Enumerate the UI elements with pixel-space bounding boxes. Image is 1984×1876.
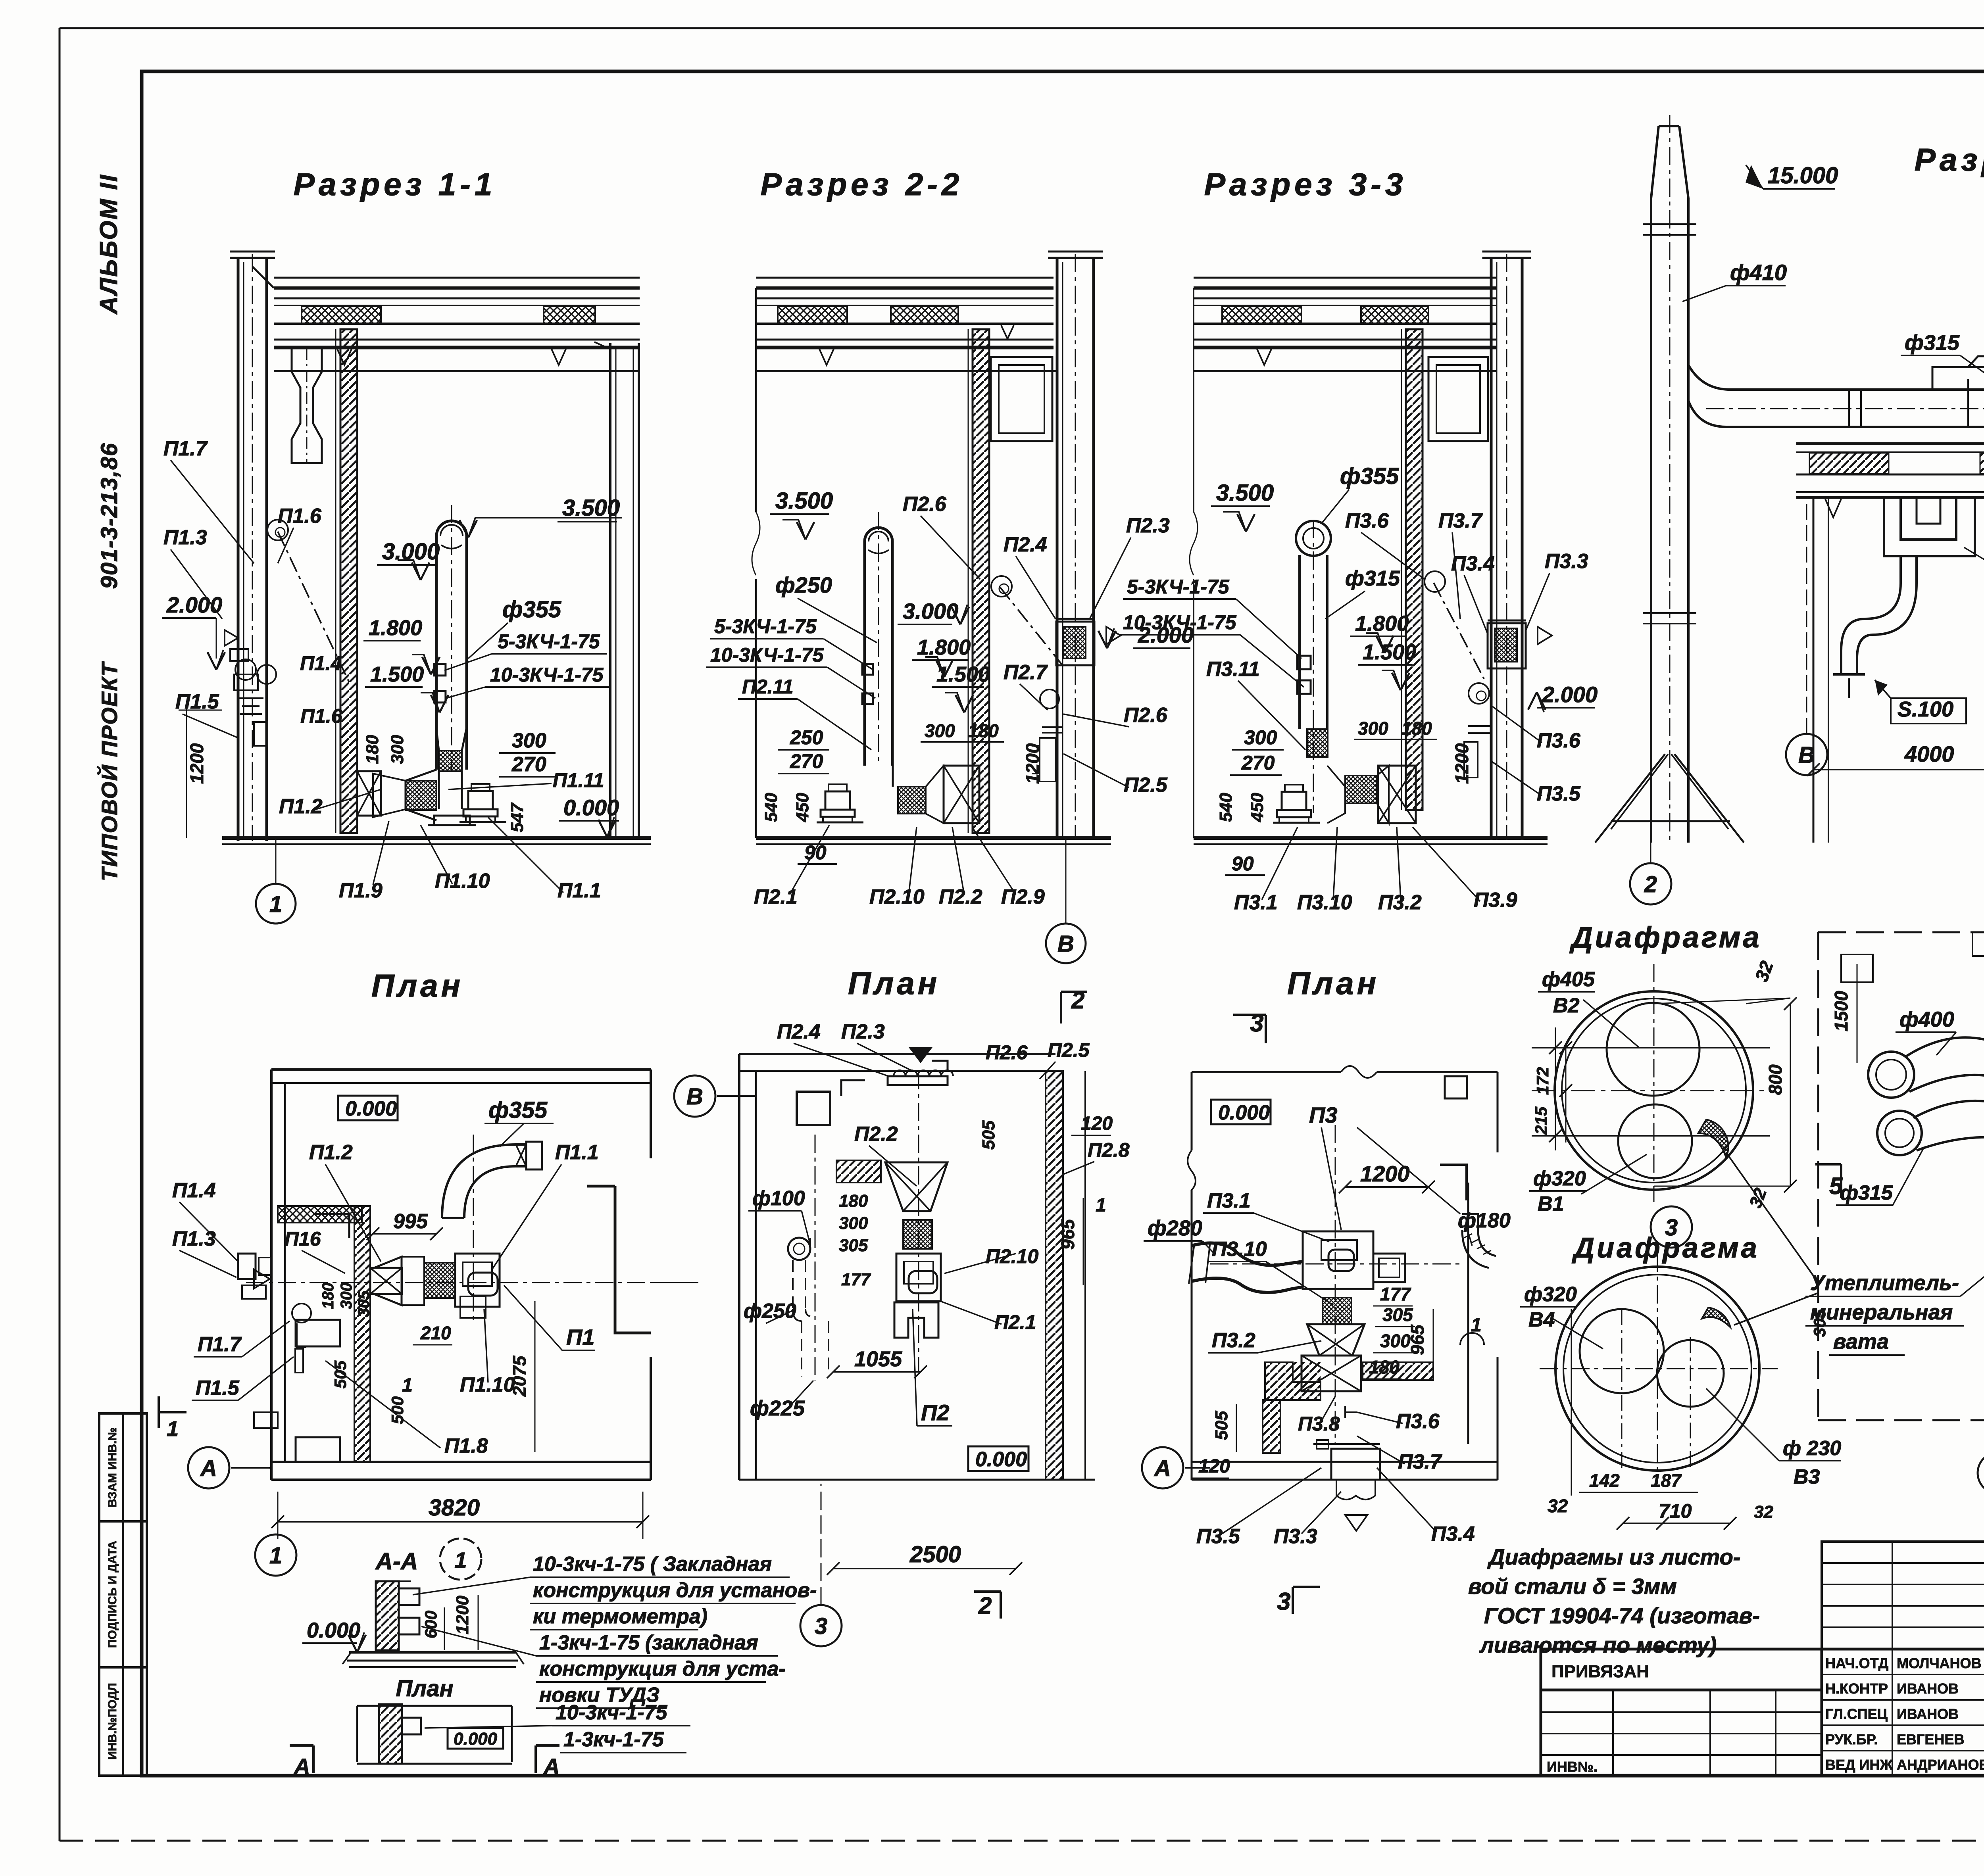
svg-text:П2.4: П2.4 xyxy=(777,1020,821,1043)
svg-text:Н.КОНТР: Н.КОНТР xyxy=(1825,1680,1888,1697)
svg-text:90: 90 xyxy=(1232,853,1254,875)
plan1 unit xyxy=(370,1257,402,1305)
svg-text:П3.5: П3.5 xyxy=(1196,1525,1240,1548)
svg-text:План: План xyxy=(371,968,463,1003)
svg-text:П2.6: П2.6 xyxy=(903,493,947,516)
misc dimension lines plans xyxy=(651,1282,698,1283)
svg-text:ИВАНОВ: ИВАНОВ xyxy=(1897,1680,1959,1697)
plan boundary xyxy=(1818,931,1984,933)
svg-text:П2.2: П2.2 xyxy=(939,885,982,908)
svg-text:ПОДПИСЬ И ДАТА: ПОДПИСЬ И ДАТА xyxy=(106,1541,119,1648)
svg-text:ИНВ.№ПОДЛ: ИНВ.№ПОДЛ xyxy=(106,1683,119,1760)
svg-text:180: 180 xyxy=(839,1191,868,1211)
svg-text:305: 305 xyxy=(355,1290,373,1317)
svg-text:П2.7: П2.7 xyxy=(1004,661,1048,684)
svg-text:П3.7: П3.7 xyxy=(1398,1450,1442,1473)
svg-text:П1.2: П1.2 xyxy=(309,1141,353,1164)
middle stack xyxy=(1048,257,1103,259)
svg-text:180: 180 xyxy=(1401,718,1432,739)
svg-text:П1.1: П1.1 xyxy=(555,1141,599,1164)
svg-text:АНДРИАНОВА: АНДРИАНОВА xyxy=(1897,1757,1984,1773)
svg-text:П3.10: П3.10 xyxy=(1212,1238,1267,1261)
svg-text:540: 540 xyxy=(1216,793,1236,822)
svg-text:РУК.БР.: РУК.БР. xyxy=(1825,1731,1878,1747)
svg-text:П1.4: П1.4 xyxy=(300,652,342,674)
svg-text:S.100: S.100 xyxy=(1897,697,1953,721)
svg-text:П1.11: П1.11 xyxy=(553,769,604,791)
svg-text:210: 210 xyxy=(420,1323,451,1343)
vent pipe F355 xyxy=(436,521,467,770)
svg-text:Утеплитель-: Утеплитель- xyxy=(1810,1271,1959,1295)
svg-text:минеральная: минеральная xyxy=(1810,1300,1953,1324)
svg-text:А-А: А-А xyxy=(375,1548,418,1575)
svg-text:300: 300 xyxy=(1358,718,1388,739)
svg-text:П1.4: П1.4 xyxy=(172,1179,216,1202)
svg-text:П2.5: П2.5 xyxy=(1124,774,1168,797)
svg-text:800: 800 xyxy=(1765,1064,1786,1095)
svg-text:П2.6: П2.6 xyxy=(986,1041,1028,1064)
svg-text:В: В xyxy=(1798,742,1815,768)
svg-text:1.800: 1.800 xyxy=(369,616,422,640)
svg-text:10-3кч-1-75 ( Закладная: 10-3кч-1-75 ( Закладная xyxy=(533,1553,772,1576)
svg-text:2.000: 2.000 xyxy=(166,592,222,617)
svg-text:305: 305 xyxy=(1382,1304,1413,1325)
svg-text:ГОСТ 19904-74 (изготав-: ГОСТ 19904-74 (изготав- xyxy=(1484,1603,1760,1628)
svg-text:1200: 1200 xyxy=(1022,743,1043,784)
vent pipe F315 with flange xyxy=(1296,521,1331,556)
svg-text:540: 540 xyxy=(761,793,781,822)
svg-text:300: 300 xyxy=(338,1283,355,1309)
svg-text:П3.6: П3.6 xyxy=(1537,729,1581,752)
svg-text:ф315: ф315 xyxy=(1345,566,1400,590)
duct B1 xyxy=(1877,1111,1922,1155)
svg-text:180: 180 xyxy=(968,720,999,741)
svg-text:10-3кч-1-75: 10-3кч-1-75 xyxy=(556,1701,668,1724)
svg-text:ф355: ф355 xyxy=(1340,463,1399,489)
svg-text:П2.8: П2.8 xyxy=(1088,1139,1130,1161)
svg-text:П3.9: П3.9 xyxy=(1474,889,1517,912)
svg-text:П2.4: П2.4 xyxy=(1004,533,1047,556)
svg-text:270: 270 xyxy=(1241,752,1275,774)
svg-text:172: 172 xyxy=(1533,1067,1552,1095)
svg-text:1.800: 1.800 xyxy=(917,636,971,659)
svg-text:ф250: ф250 xyxy=(744,1300,796,1323)
svg-text:ф225: ф225 xyxy=(750,1396,805,1420)
svg-text:П2.2: П2.2 xyxy=(854,1123,898,1146)
svg-text:ф315: ф315 xyxy=(1905,331,1960,355)
svg-text:П3.1: П3.1 xyxy=(1234,891,1278,914)
svg-text:П1.9: П1.9 xyxy=(339,879,383,902)
svg-text:5-3КЧ-1-75: 5-3КЧ-1-75 xyxy=(498,630,600,653)
svg-text:ВЕД ИНЖ: ВЕД ИНЖ xyxy=(1825,1757,1893,1773)
svg-text:3820: 3820 xyxy=(429,1495,480,1521)
svg-text:А: А xyxy=(200,1455,217,1481)
svg-text:П3: П3 xyxy=(1309,1102,1337,1127)
svg-text:3: 3 xyxy=(815,1613,827,1639)
svg-text:Разрез 3-3: Разрез 3-3 xyxy=(1204,167,1407,202)
svg-text:П2.11: П2.11 xyxy=(742,676,794,698)
outer border xyxy=(60,27,1984,29)
svg-text:ф250: ф250 xyxy=(775,572,832,597)
svg-text:План: План xyxy=(848,966,940,1001)
svg-text:1500: 1500 xyxy=(1831,991,1851,1031)
svg-text:П3.6: П3.6 xyxy=(1345,509,1389,532)
svg-text:5-3КЧ-1-75: 5-3КЧ-1-75 xyxy=(714,615,817,637)
svg-text:В1: В1 xyxy=(1538,1192,1564,1215)
svg-text:300: 300 xyxy=(1380,1331,1411,1351)
svg-text:180: 180 xyxy=(1369,1357,1400,1377)
svg-text:П2.10: П2.10 xyxy=(869,885,925,908)
svg-text:В2: В2 xyxy=(1553,994,1580,1017)
svg-text:ТИПОВОЙ ПРОЕКТ: ТИПОВОЙ ПРОЕКТ xyxy=(97,661,122,881)
svg-text:ПРИВЯЗАН: ПРИВЯЗАН xyxy=(1551,1662,1649,1681)
svg-text:1: 1 xyxy=(1096,1195,1106,1216)
svg-text:П3.7: П3.7 xyxy=(1438,509,1483,532)
svg-text:ф400: ф400 xyxy=(1899,1008,1954,1031)
svg-text:ф405: ф405 xyxy=(1542,968,1595,991)
svg-text:П2.6: П2.6 xyxy=(1124,704,1168,727)
svg-text:П1.2: П1.2 xyxy=(279,795,323,818)
svg-text:1: 1 xyxy=(402,1375,413,1396)
svg-text:ф315: ф315 xyxy=(1840,1181,1893,1204)
right column xyxy=(609,343,611,838)
svg-text:П2.3: П2.3 xyxy=(1126,514,1170,537)
svg-text:ф 230: ф 230 xyxy=(1783,1437,1841,1460)
floor unit xyxy=(439,751,462,771)
svg-text:1.500: 1.500 xyxy=(370,662,424,686)
wall xyxy=(340,329,357,833)
svg-text:ф355: ф355 xyxy=(488,1097,548,1123)
svg-text:П2.3: П2.3 xyxy=(841,1020,885,1043)
svg-text:965: 965 xyxy=(1057,1219,1078,1250)
left margin inventory boxes xyxy=(99,1413,147,1521)
svg-text:ЕВГЕНЕВ: ЕВГЕНЕВ xyxy=(1897,1731,1964,1747)
svg-text:4000: 4000 xyxy=(1904,741,1954,766)
svg-text:505: 505 xyxy=(979,1120,998,1150)
svg-text:0.000: 0.000 xyxy=(307,1619,360,1642)
svg-text:вой стали δ = 3мм: вой стали δ = 3мм xyxy=(1468,1574,1677,1599)
duct to fan xyxy=(1688,365,1984,390)
svg-text:П1.3: П1.3 xyxy=(172,1227,216,1250)
svg-text:270: 270 xyxy=(511,753,546,776)
svg-text:П3.5: П3.5 xyxy=(1537,782,1581,805)
svg-text:1200: 1200 xyxy=(1360,1161,1410,1186)
svg-text:1-3кч-1-75: 1-3кч-1-75 xyxy=(563,1728,664,1751)
svg-text:П2.10: П2.10 xyxy=(986,1245,1038,1267)
svg-text:П3.1: П3.1 xyxy=(1207,1189,1251,1212)
svg-text:А: А xyxy=(293,1754,310,1779)
svg-text:901-3-213,86: 901-3-213,86 xyxy=(96,442,122,589)
svg-text:0.000: 0.000 xyxy=(454,1729,498,1749)
svg-text:П1.7: П1.7 xyxy=(163,437,208,460)
svg-text:120: 120 xyxy=(1198,1456,1230,1477)
svg-text:1: 1 xyxy=(167,1417,179,1441)
svg-text:305: 305 xyxy=(839,1236,868,1255)
svg-text:Диафрагмы из листо-: Диафрагмы из листо- xyxy=(1487,1544,1740,1569)
svg-text:конструкция для установ-: конструкция для установ- xyxy=(533,1579,817,1602)
svg-text:600: 600 xyxy=(421,1611,440,1638)
column profile xyxy=(292,348,322,463)
svg-text:П3.11: П3.11 xyxy=(1206,658,1260,681)
svg-text:180: 180 xyxy=(319,1283,337,1309)
svg-text:АЛЬБОМ II: АЛЬБОМ II xyxy=(95,174,123,315)
svg-text:ф355: ф355 xyxy=(502,597,561,622)
svg-text:П3.4: П3.4 xyxy=(1451,552,1495,575)
svg-text:177: 177 xyxy=(1380,1284,1411,1304)
svg-text:П1.6: П1.6 xyxy=(300,705,343,727)
svg-text:П3.8: П3.8 xyxy=(1298,1413,1340,1435)
svg-text:ф410: ф410 xyxy=(1730,260,1787,285)
svg-text:В: В xyxy=(686,1084,703,1110)
svg-text:ВЗАМ ИНВ.№: ВЗАМ ИНВ.№ xyxy=(106,1427,119,1507)
svg-text:2.000: 2.000 xyxy=(1542,682,1598,707)
roof band 4-4 xyxy=(1796,442,1984,445)
svg-text:П3.3: П3.3 xyxy=(1274,1525,1317,1548)
svg-text:П3.4: П3.4 xyxy=(1431,1523,1475,1546)
svg-text:А: А xyxy=(543,1754,559,1779)
svg-text:1200: 1200 xyxy=(186,743,207,784)
chimney F410 xyxy=(1651,126,1659,843)
svg-text:300: 300 xyxy=(512,729,546,752)
svg-text:547: 547 xyxy=(508,802,527,832)
svg-text:П1.7: П1.7 xyxy=(198,1333,242,1356)
svg-text:ф320: ф320 xyxy=(1524,1283,1577,1306)
svg-text:ф320: ф320 xyxy=(1533,1167,1586,1190)
svg-text:А: А xyxy=(1153,1455,1171,1481)
svg-text:450: 450 xyxy=(793,793,812,822)
svg-text:П1.6: П1.6 xyxy=(278,505,322,528)
svg-text:П1.1: П1.1 xyxy=(558,879,601,902)
svg-text:10-3КЧ-1-75: 10-3КЧ-1-75 xyxy=(710,644,824,666)
svg-text:15.000: 15.000 xyxy=(1768,163,1838,188)
svg-text:П2.1: П2.1 xyxy=(994,1311,1036,1333)
svg-text:142: 142 xyxy=(1589,1470,1620,1491)
svg-text:10-3КЧ-1-75: 10-3КЧ-1-75 xyxy=(490,664,604,686)
svg-text:П2: П2 xyxy=(921,1400,949,1425)
svg-text:3.500: 3.500 xyxy=(775,488,833,514)
svg-text:ИВАНОВ: ИВАНОВ xyxy=(1897,1706,1959,1722)
svg-text:В3: В3 xyxy=(1794,1465,1820,1488)
svg-text:120: 120 xyxy=(1081,1113,1113,1134)
title block xyxy=(1822,1542,1984,1649)
svg-text:0.000: 0.000 xyxy=(563,795,619,820)
svg-text:3.500: 3.500 xyxy=(1216,480,1274,506)
svg-text:Диафрагма: Диафрагма xyxy=(1571,1232,1759,1264)
svg-text:2: 2 xyxy=(1644,872,1657,897)
loop duct xyxy=(1901,497,1956,540)
svg-text:П1.3: П1.3 xyxy=(163,526,207,549)
svg-text:5-3КЧ-1-75: 5-3КЧ-1-75 xyxy=(1127,576,1230,598)
left stack xyxy=(230,257,275,259)
svg-text:В4: В4 xyxy=(1528,1308,1555,1331)
svg-text:0.000: 0.000 xyxy=(975,1448,1027,1471)
svg-text:ки термометра): ки термометра) xyxy=(533,1605,707,1628)
svg-text:конструкция для уста-: конструкция для уста- xyxy=(539,1657,786,1680)
svg-text:ливаются по месту): ливаются по месту) xyxy=(1479,1632,1717,1657)
svg-text:ГЛ.СПЕЦ: ГЛ.СПЕЦ xyxy=(1825,1706,1888,1722)
svg-text:ф100: ф100 xyxy=(752,1187,805,1210)
svg-text:300: 300 xyxy=(839,1214,868,1233)
svg-text:П2.5: П2.5 xyxy=(1048,1039,1090,1061)
svg-text:П2.9: П2.9 xyxy=(1001,885,1045,908)
svg-text:План: План xyxy=(1287,966,1379,1001)
svg-text:300: 300 xyxy=(925,720,955,741)
svg-text:965: 965 xyxy=(1407,1324,1428,1355)
svg-text:995: 995 xyxy=(393,1210,428,1233)
svg-text:ИНВ№.: ИНВ№. xyxy=(1547,1759,1598,1775)
svg-text:2500: 2500 xyxy=(909,1542,961,1567)
svg-text:ф180: ф180 xyxy=(1458,1209,1511,1232)
svg-text:П1.10: П1.10 xyxy=(435,870,490,893)
svg-text:0.000: 0.000 xyxy=(345,1097,397,1120)
svg-text:1200: 1200 xyxy=(453,1596,472,1634)
svg-text:300: 300 xyxy=(1244,726,1277,749)
svg-text:П1.5: П1.5 xyxy=(196,1377,240,1400)
svg-text:177: 177 xyxy=(841,1270,871,1289)
svg-text:П3.10: П3.10 xyxy=(1297,891,1352,914)
svg-text:НАЧ.ОТД: НАЧ.ОТД xyxy=(1825,1655,1888,1671)
svg-text:450: 450 xyxy=(1248,793,1267,822)
svg-text:215: 215 xyxy=(1532,1106,1550,1135)
svg-text:0.000: 0.000 xyxy=(1218,1101,1270,1124)
svg-text:Разрез 1-1: Разрез 1-1 xyxy=(294,167,496,202)
svg-text:Разрез 4-4: Разрез 4-4 xyxy=(1915,142,1984,177)
svg-text:10-3КЧ-1-75: 10-3КЧ-1-75 xyxy=(1123,611,1237,634)
svg-text:1055: 1055 xyxy=(854,1347,902,1371)
svg-text:П3.6: П3.6 xyxy=(1396,1410,1440,1433)
duct B2 xyxy=(1868,1052,1914,1098)
svg-text:505: 505 xyxy=(1212,1411,1231,1440)
svg-text:вата: вата xyxy=(1833,1330,1889,1354)
svg-text:3.000: 3.000 xyxy=(903,599,958,624)
svg-text:710: 710 xyxy=(1659,1500,1692,1522)
svg-text:П2.1: П2.1 xyxy=(754,885,798,908)
svg-text:180: 180 xyxy=(363,735,382,764)
right stack 3-3 xyxy=(1482,257,1531,259)
svg-text:П1: П1 xyxy=(566,1325,594,1350)
svg-text:1.800: 1.800 xyxy=(1355,612,1409,636)
svg-text:1-3кч-1-75 (закладная: 1-3кч-1-75 (закладная xyxy=(539,1631,758,1654)
svg-text:505: 505 xyxy=(331,1360,350,1388)
svg-text:МОЛЧАНОВ: МОЛЧАНОВ xyxy=(1897,1655,1982,1671)
svg-text:1: 1 xyxy=(454,1548,467,1573)
svg-text:3: 3 xyxy=(1277,1588,1290,1615)
svg-text:2: 2 xyxy=(978,1592,992,1619)
svg-text:В: В xyxy=(1057,931,1074,957)
svg-text:250: 250 xyxy=(790,726,823,749)
svg-text:1: 1 xyxy=(269,1543,282,1569)
svg-text:187: 187 xyxy=(1651,1470,1682,1491)
wall sleeves xyxy=(230,649,248,661)
svg-text:Диафрагма: Диафрагма xyxy=(1569,921,1761,954)
svg-text:1: 1 xyxy=(269,891,282,917)
svg-text:Разрез 2-2: Разрез 2-2 xyxy=(761,167,963,202)
svg-text:1.500: 1.500 xyxy=(936,662,990,686)
svg-text:План: План xyxy=(396,1676,453,1701)
svg-text:П3.2: П3.2 xyxy=(1212,1329,1255,1352)
svg-text:1.500: 1.500 xyxy=(1363,640,1416,664)
svg-text:П1.8: П1.8 xyxy=(444,1434,488,1457)
svg-text:П16: П16 xyxy=(285,1228,321,1250)
svg-text:ф280: ф280 xyxy=(1148,1216,1202,1240)
svg-text:300: 300 xyxy=(388,735,407,764)
svg-text:270: 270 xyxy=(790,750,823,772)
svg-text:32: 32 xyxy=(1548,1496,1568,1516)
svg-text:П3.3: П3.3 xyxy=(1545,550,1588,573)
svg-text:32: 32 xyxy=(1754,1502,1773,1522)
svg-text:1200: 1200 xyxy=(1451,743,1472,784)
